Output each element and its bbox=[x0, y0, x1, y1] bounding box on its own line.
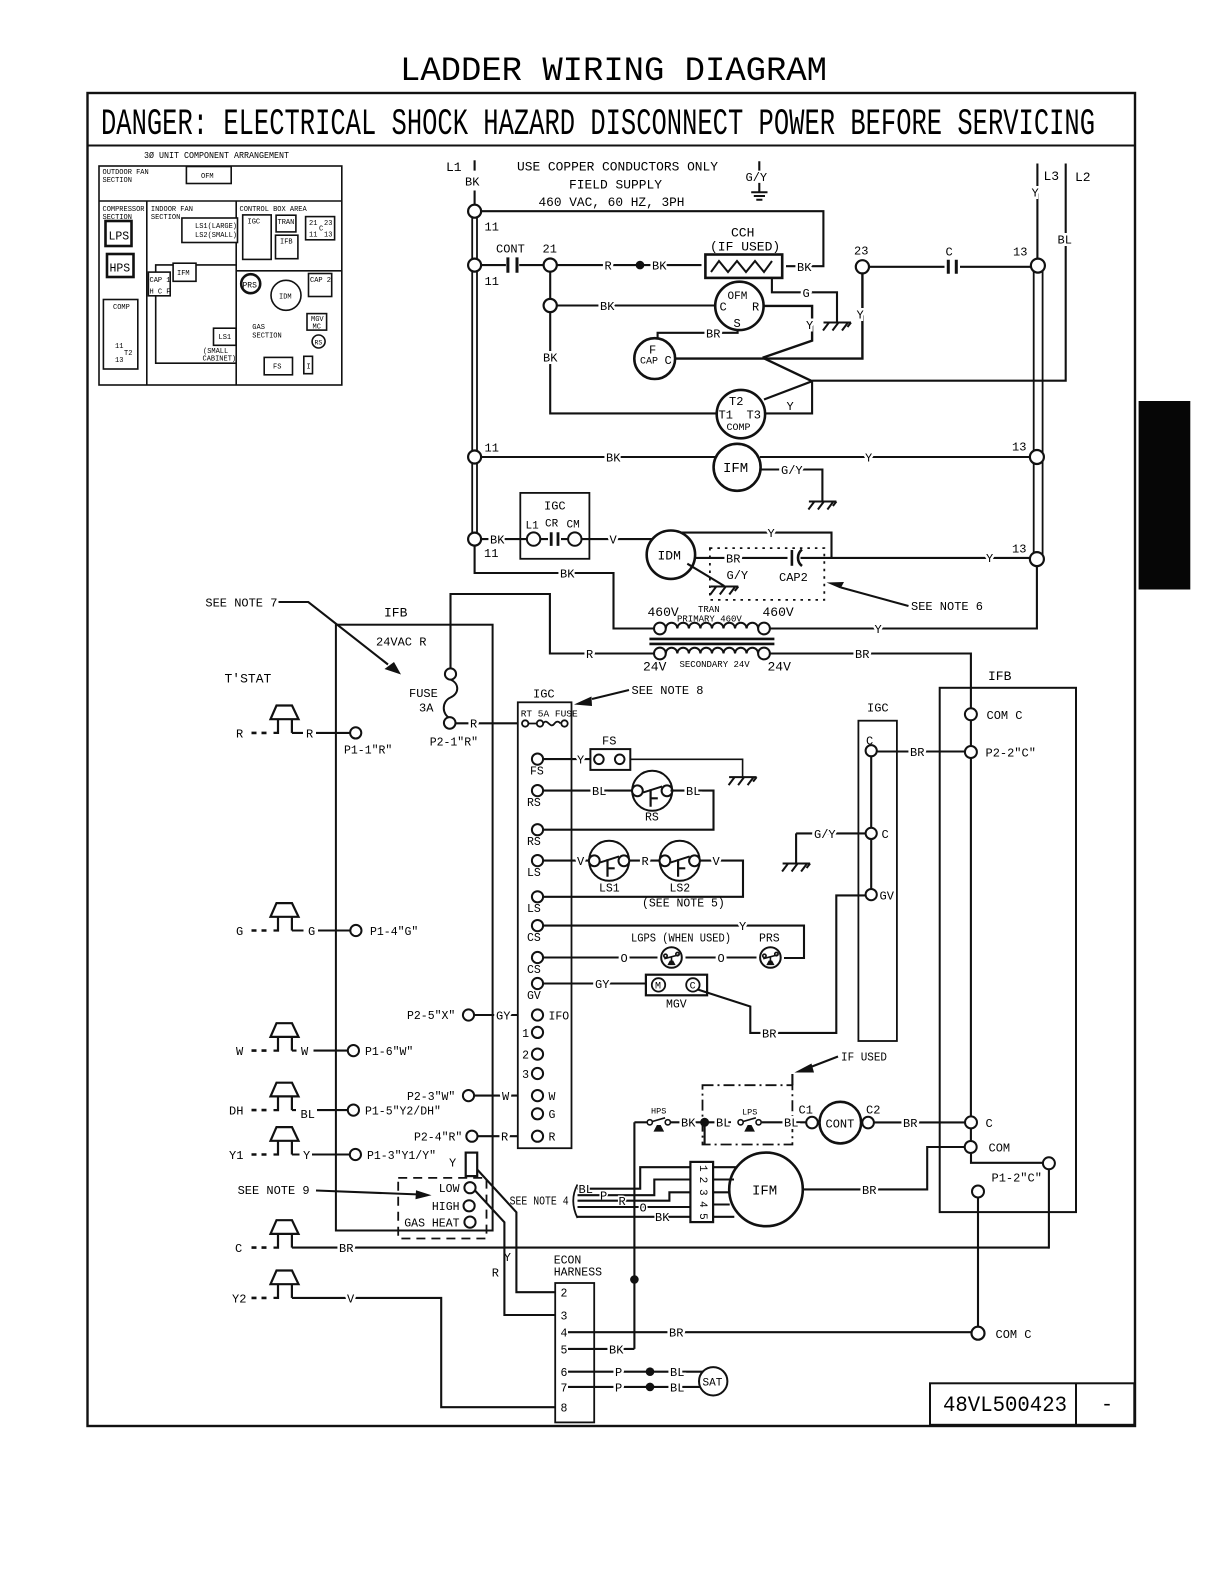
svg-text:2: 2 bbox=[561, 1288, 568, 1301]
C terminal middle bbox=[866, 828, 877, 839]
fuse symbol bbox=[444, 680, 458, 719]
CAP2 capacitor plates bbox=[791, 550, 794, 566]
ECON row 6 wire to SAT bbox=[568, 1371, 703, 1373]
svg-text:HIGH: HIGH bbox=[432, 1201, 460, 1214]
svg-text:GY: GY bbox=[496, 1009, 510, 1023]
svg-text:W: W bbox=[236, 1045, 244, 1059]
svg-text:13: 13 bbox=[1012, 441, 1026, 455]
CAP capacitor circle bbox=[634, 338, 675, 379]
svg-text:13: 13 bbox=[115, 357, 123, 365]
svg-text:3: 3 bbox=[522, 1069, 529, 1082]
wire O to pin 4 bbox=[578, 1206, 691, 1208]
LS1 small box bbox=[214, 328, 237, 345]
FS box (arrangement) bbox=[264, 357, 292, 374]
svg-text:BR: BR bbox=[726, 552, 740, 566]
svg-text:V: V bbox=[347, 1292, 355, 1306]
svg-text:P1-4"G": P1-4"G" bbox=[370, 926, 418, 939]
svg-text:OFM: OFM bbox=[201, 173, 214, 181]
PRS pressure switch bbox=[760, 947, 781, 968]
svg-text:FS: FS bbox=[602, 735, 616, 749]
svg-text:1: 1 bbox=[696, 1165, 708, 1172]
I box (arrangement) bbox=[304, 356, 313, 373]
svg-text:BK: BK bbox=[797, 261, 812, 275]
svg-text:5: 5 bbox=[561, 1344, 568, 1357]
svg-text:BR: BR bbox=[862, 1184, 876, 1198]
svg-text:CS: CS bbox=[527, 932, 541, 945]
svg-text:11: 11 bbox=[485, 275, 499, 289]
svg-text:G: G bbox=[549, 1109, 556, 1122]
svg-text:HARNESS: HARNESS bbox=[554, 1267, 602, 1280]
svg-text:48VL500423: 48VL500423 bbox=[943, 1393, 1067, 1418]
svg-text:RS: RS bbox=[645, 812, 659, 825]
svg-text:IGC: IGC bbox=[867, 702, 889, 716]
svg-text:R: R bbox=[470, 718, 477, 732]
svg-text:SEE NOTE 7: SEE NOTE 7 bbox=[205, 597, 277, 611]
BR wire from IGC C to P2-2 bbox=[877, 750, 965, 752]
svg-text:GAS HEAT: GAS HEAT bbox=[404, 1218, 459, 1231]
svg-text:RS: RS bbox=[527, 836, 541, 849]
SAT sensor bbox=[699, 1367, 727, 1395]
svg-text:LS1: LS1 bbox=[219, 334, 232, 342]
LS loop wire to row 2 bbox=[543, 861, 743, 897]
LS2 rotary switch bbox=[660, 841, 700, 881]
svg-text:CONT: CONT bbox=[826, 1117, 855, 1131]
svg-text:CONT: CONT bbox=[496, 243, 525, 257]
svg-text:G/Y: G/Y bbox=[727, 569, 749, 583]
svg-text:O: O bbox=[621, 952, 628, 966]
IFM blower motor bbox=[729, 1153, 803, 1227]
vertical chain COM C to COM bbox=[970, 720, 972, 1141]
LOW circle + diagonal R to ECON 3 bbox=[464, 1182, 475, 1193]
svg-text:21: 21 bbox=[543, 243, 557, 257]
svg-text:IGC: IGC bbox=[544, 500, 566, 514]
MGV C wire to right IGC GV bbox=[698, 895, 866, 1033]
svg-text:IFM: IFM bbox=[723, 461, 748, 477]
svg-text:CCH: CCH bbox=[731, 226, 754, 241]
FS row bbox=[543, 758, 590, 760]
svg-text:T2: T2 bbox=[124, 350, 132, 358]
IDM top Y wire over to rail bbox=[681, 533, 832, 558]
svg-text:R: R bbox=[501, 1131, 508, 1145]
svg-text:Y: Y bbox=[986, 552, 993, 566]
svg-text:460V: 460V bbox=[648, 605, 679, 620]
svg-text:L1: L1 bbox=[526, 521, 540, 533]
svg-text:LPS: LPS bbox=[109, 231, 130, 244]
svg-text:4: 4 bbox=[696, 1201, 708, 1208]
thermostat DH bbox=[252, 1083, 299, 1110]
svg-text:INDOOR FAN: INDOOR FAN bbox=[151, 206, 193, 214]
TRAN box (arrangement) bbox=[276, 215, 296, 232]
svg-text:CAP 2: CAP 2 bbox=[310, 277, 331, 285]
svg-text:COMP: COMP bbox=[113, 304, 130, 312]
OFM R wire to Y elbow bbox=[763, 306, 813, 358]
svg-text:G/Y: G/Y bbox=[781, 464, 803, 478]
svg-text:L1: L1 bbox=[446, 160, 462, 175]
svg-text:T3: T3 bbox=[747, 409, 761, 423]
thermostat Y1 bbox=[252, 1127, 299, 1154]
IGC strip box bbox=[518, 702, 572, 1148]
svg-text:6: 6 bbox=[561, 1367, 568, 1380]
terminal P1-5 bbox=[348, 1105, 359, 1116]
R row bbox=[532, 1131, 543, 1142]
danger banner line bbox=[88, 145, 1136, 147]
W row bbox=[532, 1090, 543, 1101]
svg-text:Y: Y bbox=[875, 623, 882, 637]
svg-text:FS: FS bbox=[530, 766, 544, 779]
svg-text:OFM: OFM bbox=[728, 291, 748, 303]
RS rotary switch bbox=[632, 771, 672, 811]
svg-text:COM C: COM C bbox=[987, 709, 1023, 723]
svg-text:IF USED: IF USED bbox=[841, 1051, 887, 1065]
svg-text:24VAC R: 24VAC R bbox=[376, 636, 426, 650]
svg-text:CM: CM bbox=[567, 520, 580, 532]
svg-text:P1-5"Y2/DH": P1-5"Y2/DH" bbox=[365, 1106, 441, 1119]
wire BK to OFM C bbox=[557, 304, 715, 306]
svg-text:C: C bbox=[319, 226, 323, 234]
svg-text:BK: BK bbox=[681, 1117, 696, 1131]
svg-text:IFM: IFM bbox=[177, 270, 190, 278]
svg-text:Y1: Y1 bbox=[229, 1149, 243, 1163]
svg-text:BR: BR bbox=[339, 1242, 353, 1256]
svg-text:R: R bbox=[752, 301, 759, 315]
svg-text:13: 13 bbox=[324, 232, 332, 240]
svg-text:FUSE: FUSE bbox=[409, 687, 438, 701]
secondary R wire to fuse bbox=[451, 594, 655, 668]
terminal P1-4 bbox=[350, 925, 361, 936]
svg-text:11: 11 bbox=[485, 221, 499, 235]
IDM BR wire to CAP2 capacitor bbox=[695, 557, 788, 559]
svg-text:RS: RS bbox=[527, 797, 541, 810]
top wire from L1 to CCH return bbox=[475, 211, 824, 266]
svg-text:11: 11 bbox=[309, 232, 317, 240]
svg-text:Y: Y bbox=[857, 309, 864, 323]
IFM row: node 11 wire bbox=[475, 456, 717, 458]
svg-text:3A: 3A bbox=[419, 702, 434, 716]
svg-text:3Ø UNIT COMPONENT ARRANGEMENT: 3Ø UNIT COMPONENT ARRANGEMENT bbox=[144, 151, 290, 161]
svg-text:R: R bbox=[586, 648, 593, 662]
node 23 wire with C contact to node 13 bbox=[869, 266, 1031, 268]
terminal P1-6 bbox=[348, 1045, 359, 1056]
COMP motor circle bbox=[717, 390, 765, 438]
arrangement outer box bbox=[99, 166, 342, 385]
CAP 1 box bbox=[148, 272, 170, 296]
G row bbox=[532, 1108, 543, 1119]
svg-text:MC: MC bbox=[313, 324, 321, 332]
svg-text:L2: L2 bbox=[1075, 170, 1091, 185]
wire BL to pin 1 bbox=[578, 1167, 691, 1189]
svg-text:CR: CR bbox=[545, 519, 559, 531]
svg-text:O: O bbox=[640, 1201, 647, 1215]
svg-text:GV: GV bbox=[880, 889, 895, 903]
svg-text:Y: Y bbox=[787, 400, 794, 414]
CAP 2 box (arrangement) bbox=[309, 274, 332, 297]
svg-text:BR: BR bbox=[903, 1117, 917, 1131]
svg-text:HPS: HPS bbox=[651, 1107, 666, 1117]
svg-text:BL: BL bbox=[670, 1381, 684, 1395]
terminal P1-1 bbox=[350, 727, 361, 738]
svg-text:LS1: LS1 bbox=[599, 883, 620, 896]
svg-text:4: 4 bbox=[561, 1328, 568, 1341]
svg-text:P2-5"X": P2-5"X" bbox=[407, 1010, 455, 1023]
svg-text:CS: CS bbox=[527, 964, 541, 977]
svg-text:BL: BL bbox=[686, 785, 700, 799]
LS1 rotary switch bbox=[589, 841, 629, 881]
wire BK to pin 5 bbox=[578, 1216, 691, 1218]
IFB box (arrangement) bbox=[276, 235, 298, 259]
CS row 2 : LGPS PRS bbox=[543, 956, 757, 958]
ground rake for G bbox=[823, 323, 851, 331]
svg-text:BK: BK bbox=[652, 260, 667, 274]
svg-text:21: 21 bbox=[309, 220, 317, 228]
IFM G/Y wire to ground bbox=[760, 470, 822, 502]
svg-text:IFB: IFB bbox=[280, 239, 293, 247]
svg-text:TRAN: TRAN bbox=[698, 605, 720, 615]
left rail L1 double line bbox=[472, 211, 477, 539]
svg-text:V: V bbox=[713, 855, 721, 869]
LPS box bbox=[106, 221, 132, 246]
HPS switch bbox=[647, 1118, 670, 1131]
svg-text:C: C bbox=[690, 982, 696, 993]
svg-text:LS2(SMALL): LS2(SMALL) bbox=[195, 232, 237, 240]
wire C2 to C terminal bbox=[874, 1121, 965, 1123]
IDM circle (arrangement) bbox=[271, 280, 301, 310]
outer border bbox=[88, 93, 1136, 1426]
svg-text:P1-3"Y1/Y": P1-3"Y1/Y" bbox=[367, 1150, 436, 1163]
svg-text:LS: LS bbox=[527, 903, 541, 916]
svg-text:R: R bbox=[642, 855, 649, 869]
thermostat Y2 V wire to ECON 8 bbox=[252, 1271, 299, 1298]
svg-text:460 VAC, 60 HZ, 3PH: 460 VAC, 60 HZ, 3PH bbox=[539, 195, 685, 210]
ECON row 4 BR wire to COM C bbox=[568, 1331, 972, 1333]
IDM G/Y ground diagonal bbox=[687, 564, 724, 586]
svg-text:SECTION: SECTION bbox=[252, 333, 281, 341]
svg-text:IGC: IGC bbox=[533, 688, 555, 702]
svg-text:LS2: LS2 bbox=[670, 883, 691, 896]
svg-text:IFO: IFO bbox=[549, 1010, 570, 1023]
node circle 21 bbox=[544, 259, 557, 272]
svg-text:P2-2"C": P2-2"C" bbox=[986, 747, 1036, 761]
GV row : wire to MGV bbox=[543, 982, 646, 984]
svg-text:LGPS (WHEN USED): LGPS (WHEN USED) bbox=[631, 933, 731, 946]
svg-text:G/Y: G/Y bbox=[746, 171, 768, 185]
svg-text:13: 13 bbox=[1012, 543, 1026, 557]
svg-text:11: 11 bbox=[485, 442, 499, 456]
junction dot bbox=[636, 261, 645, 270]
svg-text:S: S bbox=[734, 317, 741, 331]
OFM motor circle bbox=[715, 282, 763, 330]
svg-text:C: C bbox=[665, 354, 672, 368]
svg-text:CAP: CAP bbox=[640, 357, 658, 368]
svg-text:IFB: IFB bbox=[384, 606, 408, 621]
svg-text:1: 1 bbox=[522, 1028, 529, 1041]
brace bbox=[573, 1185, 577, 1219]
svg-text:460V: 460V bbox=[763, 605, 794, 620]
svg-text:V: V bbox=[577, 855, 585, 869]
LS row 1 bbox=[543, 860, 591, 862]
OFM S wire to CAP F bbox=[658, 330, 738, 339]
svg-text:RS: RS bbox=[315, 340, 323, 347]
svg-text:BR: BR bbox=[706, 327, 720, 341]
ECON row 7 wire to SAT bbox=[568, 1386, 701, 1388]
RS loop wire to row 2 bbox=[543, 791, 714, 830]
svg-text:T1: T1 bbox=[719, 409, 733, 423]
svg-text:COMP: COMP bbox=[727, 423, 751, 434]
svg-text:I: I bbox=[307, 364, 311, 372]
svg-text:USE COPPER CONDUCTORS ONLY: USE COPPER CONDUCTORS ONLY bbox=[517, 160, 718, 175]
svg-text:P1-6"W": P1-6"W" bbox=[365, 1046, 413, 1059]
wire BL to C1 bbox=[762, 1121, 807, 1123]
COM terminal bbox=[965, 1141, 977, 1153]
node circle L1 top bbox=[468, 205, 481, 218]
svg-text:SEE NOTE 9: SEE NOTE 9 bbox=[238, 1184, 310, 1198]
svg-text:M: M bbox=[655, 982, 661, 993]
svg-text:LPS: LPS bbox=[742, 1108, 757, 1118]
svg-text:Y: Y bbox=[577, 754, 584, 768]
svg-text:CONTROL BOX AREA: CONTROL BOX AREA bbox=[240, 206, 308, 214]
svg-text:R: R bbox=[492, 1267, 499, 1281]
svg-text:BK: BK bbox=[560, 567, 575, 581]
svg-text:IFB: IFB bbox=[988, 669, 1012, 684]
svg-text:R: R bbox=[236, 727, 243, 741]
svg-text:DANGER: ELECTRICAL SHOCK HAZAR: DANGER: ELECTRICAL SHOCK HAZARD DISCONNE… bbox=[101, 104, 1095, 146]
svg-text:W: W bbox=[502, 1090, 510, 1104]
svg-text:RT 5A FUSE: RT 5A FUSE bbox=[521, 709, 578, 720]
svg-text:-: - bbox=[1101, 1394, 1113, 1417]
COM elbow to inner terminal bbox=[971, 1153, 1043, 1163]
MGV valve box bbox=[646, 975, 707, 996]
ECON row 5 BK wire bbox=[568, 1348, 634, 1350]
svg-text:C1: C1 bbox=[799, 1104, 813, 1118]
svg-text:COM: COM bbox=[989, 1142, 1011, 1156]
svg-text:Y: Y bbox=[768, 527, 775, 541]
svg-text:PRS: PRS bbox=[243, 282, 258, 291]
CONT row wire bbox=[475, 264, 544, 266]
svg-text:Y: Y bbox=[1032, 187, 1039, 201]
svg-text:HPS: HPS bbox=[110, 263, 131, 276]
svg-text:3: 3 bbox=[561, 1310, 568, 1323]
node circle 13 top bbox=[1031, 259, 1045, 273]
diagonal Y to ECON 2 bbox=[477, 1170, 556, 1293]
svg-text:IGC: IGC bbox=[248, 219, 261, 227]
svg-text:3: 3 bbox=[696, 1189, 708, 1196]
svg-text:BL: BL bbox=[716, 1117, 730, 1131]
svg-text:BK: BK bbox=[655, 1211, 670, 1225]
svg-text:BR: BR bbox=[669, 1327, 683, 1341]
node circle 11 CONT row bbox=[468, 259, 481, 272]
LGPS pressure switch bbox=[661, 947, 682, 968]
wire R to pin 3 bbox=[578, 1192, 691, 1200]
svg-text:MGV: MGV bbox=[666, 999, 687, 1012]
svg-text:BL: BL bbox=[1058, 234, 1072, 248]
IFB right box bbox=[940, 688, 1076, 1212]
svg-text:GAS: GAS bbox=[252, 324, 265, 332]
IFB left box bbox=[336, 625, 493, 1231]
svg-text:R: R bbox=[549, 1132, 556, 1145]
CS row 1 : Y wire to PRS bbox=[543, 926, 804, 958]
svg-text:CAP 1: CAP 1 bbox=[150, 277, 171, 285]
IFM BR wire up to COM bbox=[803, 1147, 965, 1189]
svg-text:R: R bbox=[605, 260, 612, 274]
svg-text:G: G bbox=[236, 925, 243, 939]
wire P to pin 2 bbox=[578, 1180, 691, 1196]
svg-text:SECTION: SECTION bbox=[151, 214, 180, 222]
svg-text:24V: 24V bbox=[643, 660, 667, 675]
svg-text:(IF USED): (IF USED) bbox=[710, 240, 780, 255]
PRS circle (arrangement) bbox=[241, 274, 260, 293]
L2 wire BL down to compressor row bbox=[812, 164, 1066, 381]
svg-text:W: W bbox=[549, 1091, 556, 1104]
LS1/LS2 box bbox=[182, 218, 238, 243]
svg-text:P1-2"C": P1-2"C" bbox=[992, 1172, 1042, 1186]
svg-text:G: G bbox=[308, 925, 315, 939]
FS wire to ground bbox=[630, 759, 742, 776]
fan diagonals bbox=[763, 358, 813, 382]
GV terminal bbox=[866, 889, 877, 900]
svg-text:(SEE NOTE 5): (SEE NOTE 5) bbox=[642, 898, 725, 911]
IGC strip right box bbox=[858, 721, 897, 1041]
svg-text:TRAN: TRAN bbox=[278, 219, 295, 227]
IGC box (arrangement) bbox=[243, 215, 272, 260]
svg-text:SEE NOTE 8: SEE NOTE 8 bbox=[632, 684, 704, 698]
svg-text:Y2: Y2 bbox=[232, 1292, 246, 1306]
svg-text:7: 7 bbox=[561, 1382, 568, 1395]
HPS wire elbow bbox=[634, 1121, 646, 1123]
thermostat C long BR wire bbox=[252, 1220, 299, 1247]
svg-text:P2-4"R": P2-4"R" bbox=[414, 1132, 462, 1145]
svg-text:G: G bbox=[803, 287, 810, 301]
GAS HEAT circle bbox=[464, 1217, 475, 1228]
svg-text:SEE NOTE 6: SEE NOTE 6 bbox=[911, 600, 983, 614]
svg-text:FIELD SUPPLY: FIELD SUPPLY bbox=[569, 177, 662, 192]
svg-text:G/Y: G/Y bbox=[814, 828, 836, 842]
svg-text:23: 23 bbox=[324, 220, 332, 228]
IGC relay box (L1 CR CM) bbox=[520, 493, 589, 559]
svg-text:2: 2 bbox=[696, 1177, 708, 1184]
CCH bottom G wire to ground bbox=[772, 278, 837, 322]
svg-text:PRS: PRS bbox=[759, 933, 780, 946]
section divider lines bbox=[99, 201, 342, 385]
COM C terminal top bbox=[965, 708, 977, 720]
svg-text:BK: BK bbox=[606, 451, 621, 465]
rows 1 2 3 bbox=[532, 1027, 543, 1038]
svg-text:T'STAT: T'STAT bbox=[225, 672, 272, 687]
OFM box bbox=[186, 167, 231, 184]
HPS vertical to ECON 5 bbox=[633, 1122, 635, 1349]
node circle OFM-row on 21 leg bbox=[544, 299, 557, 312]
COMP box bbox=[103, 300, 137, 370]
plug connector 1-5 bbox=[690, 1162, 713, 1222]
svg-text:SECTION: SECTION bbox=[103, 177, 132, 185]
svg-text:BR: BR bbox=[910, 746, 924, 760]
G/Y wire and ground bbox=[796, 833, 866, 863]
node circle 23 bbox=[856, 260, 869, 273]
svg-text:H C F: H C F bbox=[150, 289, 171, 297]
svg-text:GY: GY bbox=[595, 978, 609, 992]
IFM right wire Y to rail bbox=[760, 456, 1031, 458]
CAP2 dotted box bbox=[710, 548, 824, 600]
svg-text:CAP2: CAP2 bbox=[779, 571, 808, 585]
svg-text:BL: BL bbox=[784, 1117, 798, 1131]
HPS box bbox=[107, 254, 134, 277]
wire 21 to CCH with junction bbox=[557, 264, 702, 266]
svg-text:IDM: IDM bbox=[658, 549, 681, 564]
svg-text:C: C bbox=[235, 1242, 242, 1256]
svg-text:P: P bbox=[615, 1381, 622, 1395]
svg-text:LS1(LARGE): LS1(LARGE) bbox=[195, 223, 237, 231]
svg-text:O: O bbox=[718, 952, 725, 966]
right rail 13 double line bbox=[1034, 266, 1043, 559]
svg-text:P: P bbox=[615, 1366, 622, 1380]
